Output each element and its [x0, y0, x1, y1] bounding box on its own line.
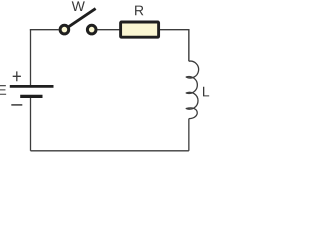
label L: [203, 87, 209, 97]
label plus: [13, 71, 21, 81]
wire left-lower segment: [30, 97, 32, 151]
wire switch-to-resistor segment: [97, 29, 119, 31]
label W: [72, 1, 85, 11]
switch W left terminal: [60, 25, 69, 34]
wire top-left segment: [31, 29, 59, 32]
wire resistor-to-corner segment: [160, 30, 189, 62]
wire left-upper segment: [30, 30, 32, 86]
resistor R: [121, 22, 159, 37]
switch W lever: [68, 9, 96, 28]
switch W right terminal: [87, 25, 96, 34]
label minus: [11, 104, 22, 106]
wire right-bottom segment: [188, 119, 190, 151]
label E: [0, 85, 6, 95]
battery E positive plate: [10, 85, 54, 88]
battery E negative plate: [20, 95, 42, 98]
label R: [135, 6, 143, 16]
inductor L: [186, 61, 198, 119]
wire bottom segment: [31, 150, 189, 152]
